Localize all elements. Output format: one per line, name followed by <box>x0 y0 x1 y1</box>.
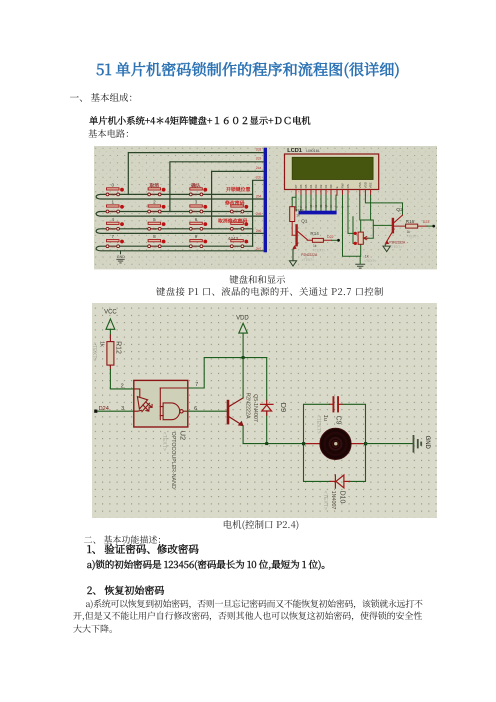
power VDD arrow symbol <box>239 323 248 333</box>
svg-text:K9: K9 <box>152 193 156 197</box>
power VCC arrow symbol <box>106 319 115 329</box>
svg-text:<TEXT>: <TEXT> <box>407 235 419 239</box>
svg-text:2b4: 2b4 <box>256 194 262 198</box>
svg-text:U2: U2 <box>179 430 188 440</box>
caption 3 <box>223 520 300 530</box>
svg-text:<TEXT>: <TEXT> <box>390 245 402 249</box>
svg-text:RW: RW <box>340 183 344 188</box>
wire R12 to U2 pin2 <box>111 369 134 388</box>
svg-text:D23: D23 <box>423 220 430 224</box>
wire motor rail to GND <box>366 442 414 444</box>
schematic 2: motor driver <box>92 303 437 523</box>
svg-text:1: 1 <box>112 200 115 205</box>
svg-text:VDD: VDD <box>363 181 367 188</box>
svg-text:E: E <box>335 187 339 189</box>
svg-text:VEE: VEE <box>369 183 373 189</box>
svg-text:D3: D3 <box>314 184 318 188</box>
bus entry (horizontal blue) <box>299 211 337 215</box>
wire U2 pin6 to Q5 base <box>188 410 228 412</box>
svg-text:D4: D4 <box>309 184 313 188</box>
push button K12 <box>148 234 166 248</box>
svg-text:2cb: 2cb <box>256 176 262 180</box>
LCD pin number labels <box>294 204 350 208</box>
push button K15 <box>106 217 124 231</box>
U2 internal NAND gate <box>161 388 188 420</box>
state dot pot bottom <box>354 242 357 245</box>
svg-text:R14: R14 <box>310 231 319 236</box>
ground (keypad) <box>120 251 122 254</box>
LCD1 screen <box>292 157 373 179</box>
item 2 <box>87 585 165 595</box>
resistor R12 <box>110 335 112 369</box>
svg-text:D6: D6 <box>299 184 303 188</box>
opto-coupler U2 body <box>134 380 188 427</box>
svg-text:9: 9 <box>195 234 198 239</box>
svg-text:K13: K13 <box>110 193 115 197</box>
push button K9 <box>148 182 166 197</box>
wire pot bottom to ground <box>359 244 361 263</box>
node dot (R14 out) <box>337 239 340 242</box>
push button K14 <box>106 200 124 214</box>
svg-text:K11: K11 <box>152 227 157 231</box>
svg-text:K15: K15 <box>110 227 115 231</box>
svg-text:14: 14 <box>329 204 333 208</box>
svg-text:1u: 1u <box>322 414 328 420</box>
svg-text:取消: 取消 <box>149 182 159 189</box>
svg-text:K2: K2 <box>234 210 238 214</box>
wire Q5 collector to VDD rail <box>242 357 244 397</box>
state dot pot top <box>354 232 357 235</box>
LCD1 pin name labels <box>294 181 373 188</box>
ground arrow (Q1) <box>289 261 296 266</box>
svg-text:VCC: VCC <box>104 309 117 315</box>
svg-text:7: 7 <box>112 234 115 239</box>
svg-text:P2N2222A: P2N2222A <box>301 253 318 257</box>
item 1a <box>87 560 331 570</box>
svg-text:0: 0 <box>112 183 115 188</box>
caption 2 <box>156 287 384 296</box>
wire D24 to U2 pin3 <box>98 410 134 412</box>
svg-text:D22: D22 <box>327 235 334 239</box>
potentiometer RV1 <box>358 232 363 244</box>
svg-text:13: 13 <box>324 204 328 208</box>
svg-text:3: 3 <box>195 200 198 205</box>
svg-text:<TEXT>: <TEXT> <box>302 258 314 262</box>
push button K10 <box>148 200 166 214</box>
svg-text:修改密码: 修改密码 <box>225 200 245 207</box>
svg-text:7: 7 <box>195 382 198 388</box>
svg-text:OPTOCOUPLER-NAND: OPTOCOUPLER-NAND <box>170 431 176 488</box>
wire U2 pin7 to VDD rail <box>188 357 267 387</box>
svg-text:K5: K5 <box>193 193 197 197</box>
svg-text:<TEXT>: <TEXT> <box>322 490 328 509</box>
svg-text:C9: C9 <box>335 415 342 424</box>
svg-text:<TEXT>: <TEXT> <box>92 342 97 361</box>
wire pot wiper box <box>361 220 374 238</box>
svg-text:K12: K12 <box>152 244 157 248</box>
svg-text:GND: GND <box>117 255 125 259</box>
push button K4 <box>230 240 248 249</box>
wire Q5 emitter to motor rail <box>243 426 303 444</box>
wire R13 to Q1 base <box>292 222 295 236</box>
junction VDD rail <box>242 356 245 359</box>
svg-text:K10: K10 <box>152 210 157 214</box>
wire Q1 emitter down <box>292 249 294 260</box>
push button K6 <box>189 200 207 214</box>
wire VSS down <box>359 195 362 232</box>
svg-text:<TEXT>: <TEXT> <box>313 249 325 253</box>
wire column 1 to bus <box>128 153 263 195</box>
svg-text:取消修改密码: 取消修改密码 <box>218 218 247 225</box>
ground GND symbol <box>414 436 422 452</box>
wire RW to pot dot <box>348 195 354 233</box>
svg-text:1N4007: 1N4007 <box>330 490 336 509</box>
svg-text:11: 11 <box>314 205 318 208</box>
wire pot box to Q2 base <box>373 225 391 227</box>
svg-text:K6: K6 <box>193 210 197 214</box>
line: composition <box>89 116 311 125</box>
line: basic circuit <box>88 129 135 138</box>
wire row 4 loop <box>96 246 263 251</box>
title <box>0 62 496 77</box>
wire LCD pin1 to R13 <box>292 195 296 207</box>
caption 1 <box>229 275 285 284</box>
svg-text:1k: 1k <box>296 214 300 218</box>
junction D9/emitter rail <box>266 442 269 445</box>
svg-text:<TEXT>: <TEXT> <box>161 431 167 450</box>
svg-text:10: 10 <box>309 204 313 208</box>
wire row 3 loop <box>96 229 263 234</box>
wires LCD data pins to bus entry <box>296 195 336 211</box>
svg-text:K7: K7 <box>193 227 197 231</box>
push button K16 <box>106 234 124 248</box>
heading 1 <box>70 93 138 103</box>
svg-text:RS: RS <box>346 184 350 188</box>
wire E to ground rail <box>342 195 360 256</box>
LCD1 pin stubs <box>296 190 371 196</box>
junction motor left <box>302 442 305 445</box>
svg-text:Q2: Q2 <box>396 207 403 213</box>
transistor Q2 <box>385 215 402 244</box>
svg-text:D7: D7 <box>294 184 298 188</box>
push button K13 <box>106 183 124 197</box>
node dot (R16 out) <box>432 225 435 228</box>
push button K2 <box>230 205 248 214</box>
svg-text:D2: D2 <box>319 184 323 188</box>
svg-text:1k: 1k <box>99 341 105 347</box>
svg-text:VDD: VDD <box>236 316 249 322</box>
wire row 2 loop <box>96 212 263 217</box>
svg-text:GND: GND <box>424 435 430 449</box>
svg-text:2c8: 2c8 <box>256 148 262 152</box>
transistor Q1 <box>293 226 307 250</box>
ground arrow (Q2) <box>384 244 386 246</box>
svg-text:2b7: 2b7 <box>256 247 262 251</box>
capacitor C9 <box>330 403 342 405</box>
motor M body <box>320 428 351 459</box>
LCD1 body <box>284 154 378 189</box>
svg-text:确认: 确认 <box>191 182 201 189</box>
transistor Q5 <box>228 398 243 426</box>
push button K7 <box>189 217 207 231</box>
svg-text:K3: K3 <box>234 227 238 231</box>
svg-text:2ca: 2ca <box>256 166 262 170</box>
wire motor loop rectangle <box>304 404 366 481</box>
svg-text:K16: K16 <box>110 244 115 248</box>
wire row 1 loop <box>96 195 263 200</box>
svg-text:LCD1: LCD1 <box>287 148 302 154</box>
svg-text:Q5-1N4007: Q5-1N4007 <box>252 394 258 422</box>
svg-text:2: 2 <box>121 384 124 390</box>
bus P1 (vertical blue) <box>264 148 267 253</box>
junction motor right <box>364 442 367 445</box>
wire RS to pot dot <box>352 217 355 244</box>
schematic 1: keyboard + LCD <box>94 146 437 274</box>
svg-text:P2N2222A: P2N2222A <box>245 392 251 418</box>
push button K3 <box>230 222 248 231</box>
item 1 <box>87 545 199 556</box>
svg-text:<TEXT>: <TEXT> <box>364 259 377 263</box>
svg-text:5: 5 <box>153 217 156 222</box>
net labels on bus <box>256 148 262 252</box>
svg-text:8: 8 <box>153 234 156 239</box>
U2 internal LED <box>134 389 152 412</box>
motor M leads <box>304 442 366 444</box>
svg-text:3: 3 <box>121 406 124 412</box>
svg-text:LM016L: LM016L <box>306 149 320 153</box>
node D24 <box>95 409 98 412</box>
svg-text:D0: D0 <box>329 184 333 188</box>
svg-text:K14: K14 <box>110 210 115 214</box>
push button K5 <box>189 182 207 197</box>
wire column 3 to bus <box>212 172 264 229</box>
wire column 2 to bus <box>170 162 264 212</box>
ground (pot) <box>356 264 365 268</box>
svg-text:K4: K4 <box>234 244 238 248</box>
svg-text:2: 2 <box>153 200 156 205</box>
svg-text:2b5: 2b5 <box>256 212 262 216</box>
resistor R16 <box>394 225 427 227</box>
svg-text:Q1: Q1 <box>301 219 308 224</box>
push button K8 <box>189 234 207 248</box>
svg-text:4443: 4443 <box>228 236 239 241</box>
svg-text:6: 6 <box>195 217 198 222</box>
svg-text:K8: K8 <box>193 244 197 248</box>
svg-text:D9: D9 <box>279 402 288 412</box>
svg-text:D1: D1 <box>324 184 328 188</box>
svg-text:VSS: VSS <box>358 183 362 189</box>
paragraph 2a <box>73 598 423 636</box>
svg-text:1k: 1k <box>365 255 369 259</box>
svg-text:D10: D10 <box>339 490 346 503</box>
resistor R13 <box>290 207 295 222</box>
svg-text:D5: D5 <box>304 184 308 188</box>
wire VCC to R12 <box>110 329 112 335</box>
wire column 4 to bus <box>253 180 264 246</box>
svg-text:R12: R12 <box>115 341 122 354</box>
svg-text:2c9: 2c9 <box>256 157 262 161</box>
svg-text:2b6: 2b6 <box>256 229 262 233</box>
wire VEE to wiper box <box>370 195 372 220</box>
resistor R14 <box>307 239 331 241</box>
wire VDD to rail <box>242 333 244 357</box>
diode D9 <box>266 357 268 443</box>
svg-text:1k: 1k <box>407 230 411 234</box>
svg-text:开锁键位置: 开锁键位置 <box>226 186 250 193</box>
svg-text:12: 12 <box>319 204 323 208</box>
svg-text:4: 4 <box>112 217 115 222</box>
diode D10 <box>330 475 350 488</box>
svg-text:R13: R13 <box>296 208 304 213</box>
heading 2 <box>84 535 167 544</box>
svg-text:<TEXT>: <TEXT> <box>315 414 321 433</box>
svg-text:R16: R16 <box>406 219 415 224</box>
svg-text:P2N2222A: P2N2222A <box>389 241 406 245</box>
push button K11 <box>148 217 166 231</box>
wire VDD to Q2 collector <box>365 195 402 215</box>
